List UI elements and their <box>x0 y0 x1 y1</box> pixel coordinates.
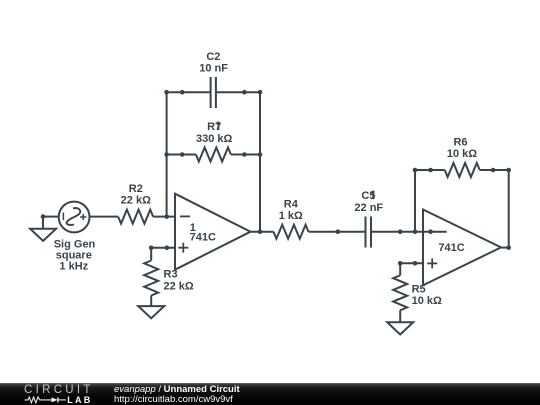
svg-text:741C: 741C <box>190 232 216 244</box>
svg-text:22 kΩ: 22 kΩ <box>121 195 151 207</box>
svg-text:R2: R2 <box>129 183 143 195</box>
svg-text:C2: C2 <box>206 51 220 63</box>
svg-text:330 kΩ: 330 kΩ <box>196 133 233 145</box>
svg-text:R5: R5 <box>412 284 426 296</box>
svg-text:1 kHz: 1 kHz <box>59 261 88 273</box>
svg-text:741C: 741C <box>438 242 464 254</box>
svg-text:R6: R6 <box>453 137 467 149</box>
svg-text:square: square <box>56 250 92 262</box>
svg-text:1 kΩ: 1 kΩ <box>279 210 303 222</box>
svg-text:10 kΩ: 10 kΩ <box>412 295 442 307</box>
svg-text:22 nF: 22 nF <box>354 202 383 214</box>
svg-text:10 nF: 10 nF <box>199 63 228 75</box>
svg-text:R4: R4 <box>284 198 299 210</box>
svg-text:22 kΩ: 22 kΩ <box>164 281 194 293</box>
svg-text:Sig Gen: Sig Gen <box>54 238 96 250</box>
svg-text:10 kΩ: 10 kΩ <box>447 148 477 160</box>
svg-text:R3: R3 <box>164 268 178 280</box>
